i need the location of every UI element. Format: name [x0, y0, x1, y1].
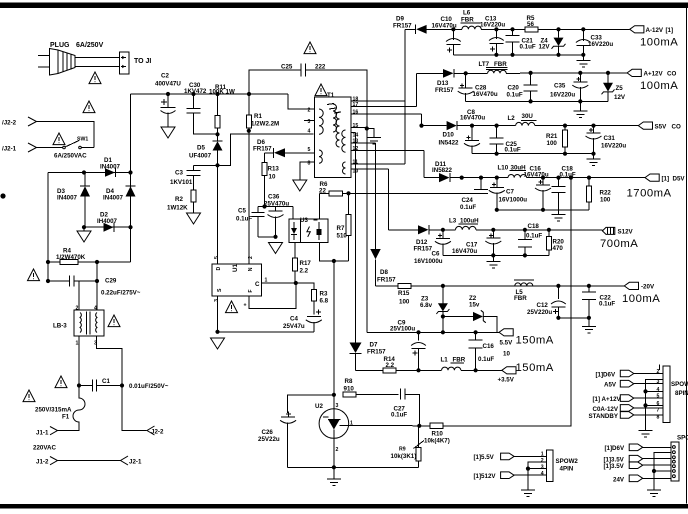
svg-text:R9: R9 — [399, 447, 406, 453]
node junction — [494, 53, 498, 57]
svg-text:2.2: 2.2 — [386, 362, 395, 369]
node arrow D6V — [620, 370, 634, 377]
warning triangle — [55, 376, 67, 388]
zener Z2 — [443, 310, 497, 332]
ground — [639, 431, 653, 438]
wire pin4 tie — [646, 390, 664, 392]
ground — [211, 338, 225, 349]
node junction — [606, 71, 610, 75]
svg-text:[1]3.5V: [1]3.5V — [604, 463, 625, 470]
node output arrow D5V — [645, 174, 659, 181]
node junction — [526, 467, 530, 471]
svg-text:4PIN: 4PIN — [560, 466, 574, 473]
svg-text:C1: C1 — [102, 378, 110, 385]
diode D5 — [213, 141, 223, 166]
wire -20V lower bus — [558, 317, 589, 319]
node junction — [591, 124, 595, 128]
wire U1 pin S ground leg — [217, 296, 219, 332]
warning triangle — [23, 390, 35, 402]
node junction — [46, 260, 50, 264]
wire D12 riser — [388, 169, 390, 230]
wire U2 ref to R10 node — [349, 424, 420, 427]
resistor R6 — [320, 191, 349, 196]
node junction — [273, 235, 277, 239]
capacitor C13 electrolytic — [489, 29, 504, 55]
wire pin6 tie — [646, 404, 664, 406]
wire SPOW1 pin5 — [634, 397, 663, 399]
svg-text:SPOW2: SPOW2 — [556, 458, 579, 465]
node junction — [523, 253, 527, 257]
wire SPOW3 pin3 — [643, 458, 671, 460]
pin mark — [314, 219, 318, 221]
wire A+12V lower bus — [466, 100, 608, 102]
wire pin5 tie — [654, 470, 671, 472]
capacitor C26 electrolytic — [280, 411, 296, 467]
svg-text:[1] A+12V: [1] A+12V — [593, 396, 622, 403]
wire T1 pin18 — [351, 100, 405, 102]
ground — [293, 180, 307, 191]
capacitor C17 electrolytic — [485, 230, 501, 256]
svg-text:1/2W2.2M: 1/2W2.2M — [251, 121, 279, 128]
svg-text:D: D — [216, 267, 222, 271]
svg-text:0.1uF: 0.1uF — [520, 44, 536, 51]
wire 5.5V bus — [367, 331, 499, 333]
node junction — [441, 284, 445, 288]
wire to U1 pin5 — [217, 165, 219, 264]
ground — [327, 467, 341, 485]
wire SPOW2 pin4 — [514, 474, 546, 476]
left margin bullet — [0, 193, 5, 198]
node junction — [346, 191, 350, 195]
svg-text:IN4007: IN4007 — [100, 164, 121, 171]
svg-text:16V470u: 16V470u — [460, 115, 485, 122]
svg-text:/J2-2: /J2-2 — [2, 120, 17, 127]
wire T1 pin15 — [351, 127, 367, 129]
node junction — [416, 368, 420, 372]
ground — [647, 490, 661, 497]
node junction — [82, 170, 86, 174]
svg-text:4: 4 — [657, 387, 660, 393]
capacitor C18b — [518, 230, 532, 256]
svg-text:12V: 12V — [614, 94, 626, 101]
svg-text:100mA: 100mA — [640, 36, 678, 48]
diode D11 — [424, 173, 462, 182]
node junction — [441, 330, 445, 334]
node arrow STANDBY — [620, 412, 634, 419]
svg-text:R2: R2 — [175, 196, 183, 203]
resistor R1 — [246, 94, 251, 264]
svg-text:[1]D6V: [1]D6V — [596, 371, 616, 378]
svg-text:IN5822: IN5822 — [432, 167, 453, 174]
svg-text:D8: D8 — [380, 269, 388, 276]
svg-text:470: 470 — [553, 245, 564, 252]
svg-text:6: 6 — [657, 401, 660, 407]
node junction — [128, 170, 132, 174]
svg-text:U3: U3 — [300, 217, 308, 224]
svg-text:4: 4 — [308, 129, 311, 135]
svg-text:6.8v: 6.8v — [420, 302, 433, 309]
svg-text:U2: U2 — [315, 403, 323, 410]
svg-text:16V470u: 16V470u — [524, 171, 549, 178]
connector SPOW3 — [671, 442, 679, 481]
svg-text:16V220u: 16V220u — [601, 143, 626, 150]
node junction — [541, 176, 545, 180]
capacitor C4 electrolytic — [306, 310, 322, 332]
zener Z5 — [602, 73, 615, 102]
svg-text:LB-3: LB-3 — [53, 323, 67, 330]
capacitor C24 — [474, 178, 488, 194]
svg-text:24V: 24V — [613, 476, 625, 483]
node output arrow A-12V — [630, 26, 644, 33]
node output arrow -20V — [624, 282, 638, 289]
svg-text:FBR: FBR — [494, 61, 507, 68]
diode D6 — [265, 148, 315, 158]
svg-text:SPO: SPO — [677, 435, 688, 442]
shunt regulator U2 — [319, 395, 349, 468]
svg-text:C35: C35 — [554, 83, 566, 90]
wire U2 C26 bottom bus — [288, 466, 419, 468]
capacitor C7 electrolytic — [489, 178, 505, 210]
svg-text:C25: C25 — [281, 64, 293, 71]
capacitor C20 — [524, 73, 538, 102]
node junction — [417, 424, 421, 428]
wire D5 node to C3 — [194, 164, 218, 166]
svg-text:1700mA: 1700mA — [627, 187, 672, 199]
svg-text:A-12V: A-12V — [646, 27, 664, 34]
inductor L1 — [442, 363, 502, 371]
svg-text:R8: R8 — [345, 378, 353, 385]
switch SW1 — [63, 141, 94, 149]
wire SPOW1 ground leg — [646, 380, 664, 431]
svg-text:700mA: 700mA — [600, 238, 638, 250]
capacitor C25 — [249, 64, 367, 129]
node junction — [556, 284, 560, 288]
svg-text:10: 10 — [269, 174, 276, 181]
node junction — [491, 228, 495, 232]
capacitor C21 — [506, 29, 520, 55]
svg-text:16V470u: 16V470u — [452, 248, 477, 255]
svg-text:FR157: FR157 — [377, 277, 396, 284]
svg-text:0.1uF: 0.1uF — [526, 232, 542, 239]
svg-text:222: 222 — [315, 64, 326, 71]
svg-text:F1: F1 — [62, 414, 70, 421]
node junction — [556, 176, 560, 180]
svg-text:+: + — [244, 303, 247, 309]
svg-text:J2-2: J2-2 — [151, 429, 164, 436]
svg-text:C4: C4 — [290, 315, 298, 322]
svg-text:0.1uF: 0.1uF — [460, 204, 476, 211]
resistor R15 — [376, 283, 625, 288]
svg-text:56: 56 — [527, 21, 534, 28]
ground — [576, 55, 590, 67]
node junction — [563, 124, 567, 128]
ground — [77, 227, 91, 242]
node junction — [652, 469, 656, 473]
node junction — [332, 259, 336, 263]
warning triangle — [226, 301, 238, 313]
svg-text:D10: D10 — [443, 132, 455, 139]
svg-text:D5V: D5V — [673, 175, 686, 182]
svg-text:FBR: FBR — [461, 16, 474, 23]
svg-text:5: 5 — [214, 256, 220, 259]
node junction — [547, 228, 551, 232]
svg-text:FR157: FR157 — [253, 145, 272, 152]
node junction — [460, 176, 464, 180]
node junction — [529, 71, 533, 75]
resistor R4 — [48, 259, 131, 264]
wire LB-3 pin1 down — [78, 336, 80, 386]
node J2-2 arrow — [28, 117, 37, 126]
svg-text:S5V: S5V — [655, 123, 668, 130]
wire J2-2 to switch — [37, 122, 95, 148]
svg-text:L3: L3 — [449, 218, 457, 225]
warning triangle — [315, 84, 327, 96]
resistor R10 — [419, 423, 571, 428]
connector TO J1 — [120, 52, 130, 74]
wire S5V rail — [472, 125, 516, 127]
svg-text:6.8: 6.8 — [320, 298, 329, 305]
wire HV positive leg — [130, 94, 132, 262]
svg-text:IH4007: IH4007 — [97, 218, 118, 225]
svg-text:F: F — [248, 290, 254, 293]
node junction — [643, 403, 647, 407]
svg-text:R7: R7 — [337, 225, 345, 232]
node junction — [556, 316, 560, 320]
svg-text:15v: 15v — [469, 301, 480, 308]
svg-text:150mA: 150mA — [516, 335, 554, 347]
node J2-1 arrow — [121, 456, 129, 465]
svg-text:R17: R17 — [300, 260, 312, 267]
svg-text:C20: C20 — [508, 84, 520, 91]
resistor R9 — [414, 426, 425, 468]
node junction — [529, 99, 533, 103]
svg-text:R21: R21 — [546, 133, 558, 140]
wire SPOW3 pin6 — [643, 477, 671, 479]
svg-text:SW1: SW1 — [77, 137, 88, 143]
node junction — [581, 27, 585, 31]
node junction — [587, 316, 591, 320]
node junction — [215, 92, 219, 96]
svg-text:25V100u: 25V100u — [390, 326, 415, 333]
wire SPOW1 pin8 — [634, 414, 663, 416]
node junction — [191, 92, 195, 96]
wire LB-3 pin3 down — [97, 336, 123, 386]
node junction — [215, 330, 219, 334]
wire D8 riser — [375, 143, 377, 250]
svg-text:10k(3K1): 10k(3K1) — [391, 453, 417, 460]
inductor L5 — [514, 280, 534, 286]
svg-text:0.1uF: 0.1uF — [391, 412, 407, 419]
diode D9 — [405, 25, 453, 34]
svg-text:A5V: A5V — [604, 382, 617, 389]
inductor LT7 — [466, 68, 627, 74]
node output arrow S5V — [638, 122, 652, 129]
node junction — [120, 383, 124, 387]
node junction — [495, 208, 499, 212]
ground — [573, 101, 587, 117]
inductor L10 — [508, 171, 645, 178]
node junction — [479, 176, 483, 180]
svg-text:4: 4 — [541, 471, 544, 477]
capacitor C22 — [582, 286, 596, 318]
node junction — [441, 228, 445, 232]
node arrow A+12V — [620, 395, 634, 402]
svg-text:10: 10 — [503, 350, 510, 357]
svg-text:FR157: FR157 — [435, 87, 454, 94]
svg-text:17: 17 — [353, 102, 359, 108]
capacitor C35 electrolytic — [572, 73, 588, 102]
border right line — [685, 8, 687, 504]
node junction — [262, 204, 266, 208]
svg-text:510: 510 — [337, 233, 348, 240]
resistor R14 — [356, 368, 442, 373]
svg-text:J1-1: J1-1 — [36, 430, 49, 437]
svg-text:12V: 12V — [539, 44, 551, 51]
regulator U1 — [212, 264, 262, 296]
node junction — [82, 225, 86, 229]
svg-text:25V470u: 25V470u — [264, 200, 289, 207]
wire D13 riser — [416, 73, 418, 106]
svg-text:S: S — [217, 288, 223, 292]
capacitor C30 — [187, 94, 218, 134]
node junction — [365, 126, 369, 130]
wire feedback line — [349, 192, 475, 194]
node junction — [523, 228, 527, 232]
wire C26 top — [288, 395, 334, 413]
ground — [367, 129, 381, 145]
svg-text:C6: C6 — [432, 250, 440, 257]
diode D4 — [126, 173, 136, 228]
svg-text:3: 3 — [657, 379, 660, 385]
node junction — [495, 124, 499, 128]
svg-text:8: 8 — [657, 414, 660, 420]
svg-text:400V47U: 400V47U — [155, 81, 181, 88]
svg-text:16V1000u: 16V1000u — [499, 196, 528, 203]
svg-text:8PIN: 8PIN — [675, 390, 688, 397]
svg-text:100K 1W: 100K 1W — [209, 89, 235, 96]
svg-text:10k(4K7): 10k(4K7) — [424, 437, 450, 444]
svg-text:2: 2 — [336, 447, 339, 453]
node junction — [77, 383, 81, 387]
svg-text:C31: C31 — [604, 135, 616, 142]
wire S12V lower bus — [443, 254, 549, 256]
wire U1 pin F — [249, 283, 296, 308]
svg-text:C2: C2 — [161, 73, 169, 80]
wire C36 node — [258, 206, 293, 208]
svg-text:0.1uF: 0.1uF — [478, 356, 494, 363]
wire T1 pin11 — [351, 163, 405, 165]
svg-text:IN5422: IN5422 — [439, 140, 460, 147]
svg-text:100mA: 100mA — [640, 80, 678, 92]
resistor R2 — [191, 190, 196, 213]
node junction — [578, 99, 582, 103]
node output arrow S12V striped — [602, 227, 614, 234]
svg-text:1: 1 — [541, 451, 544, 457]
capacitor C31 electrolytic — [586, 126, 602, 154]
ground — [161, 127, 175, 138]
wire T1 pin3 stub — [304, 119, 315, 121]
node junction — [494, 27, 498, 31]
svg-text:+3.5V: +3.5V — [498, 376, 515, 383]
node junction — [470, 124, 474, 128]
svg-text:100mA: 100mA — [622, 293, 660, 305]
resistor R11 — [215, 94, 220, 141]
svg-text:3: 3 — [541, 464, 544, 470]
warning triangle — [304, 42, 316, 54]
svg-text:250V/315mA: 250V/315mA — [35, 407, 72, 414]
svg-text:C5: C5 — [238, 208, 246, 215]
capacitor C8 electrolytic — [464, 126, 480, 154]
wire SPOW1 pin7 — [634, 407, 663, 409]
wire C node to R3 — [296, 283, 314, 290]
node junction — [247, 92, 251, 96]
node junction — [541, 208, 545, 212]
wire U3 LED anode — [292, 207, 294, 220]
capacitor C9 electrolytic — [411, 332, 426, 370]
svg-text:CO: CO — [667, 71, 676, 78]
capacitor C16 electrolytic — [535, 178, 551, 210]
node arrow 512V to SPOW2 — [501, 472, 514, 479]
resistor R22 — [587, 178, 592, 210]
svg-text:0.22uF/275V~: 0.22uF/275V~ — [101, 290, 141, 297]
node junction — [587, 284, 591, 288]
wire C5 C36 bottom bus — [258, 236, 276, 238]
svg-text:SPOW1: SPOW1 — [671, 381, 688, 388]
diode D1 — [105, 168, 115, 177]
svg-text:LT7: LT7 — [479, 61, 490, 68]
node arrow 5.5V to SPOW2 — [501, 453, 514, 460]
svg-text:16V470u: 16V470u — [473, 91, 498, 98]
svg-text:IN4007: IN4007 — [57, 195, 78, 202]
capacitor C33 electrolytic — [576, 29, 591, 55]
node junction — [95, 279, 99, 283]
node junction — [215, 163, 219, 167]
wire SPOW3 ground leg — [654, 453, 671, 490]
node junction — [563, 152, 567, 156]
svg-text:100: 100 — [600, 197, 611, 204]
capacitor C3 — [187, 165, 201, 190]
node J2-1 arrow — [28, 143, 37, 152]
node arrow C0A-12V — [620, 405, 634, 412]
svg-text:2: 2 — [76, 305, 79, 311]
svg-text:UF4007: UF4007 — [189, 153, 212, 160]
wire T1 pin10 — [351, 168, 389, 170]
diode D3 — [80, 173, 90, 228]
AC plug symbol — [38, 49, 75, 76]
svg-text:L1: L1 — [441, 356, 449, 363]
wire HV bus to T1 pin2 — [288, 94, 315, 109]
svg-text:L6: L6 — [463, 9, 471, 16]
wire HV bus — [131, 93, 289, 95]
svg-text:TO JI: TO JI — [134, 58, 151, 65]
ground — [486, 255, 500, 268]
svg-text:16: 16 — [353, 110, 359, 116]
capacitor C6 electrolytic — [435, 230, 451, 256]
node junction — [441, 314, 445, 318]
svg-text:220VAC: 220VAC — [33, 445, 56, 452]
svg-text:1KV101: 1KV101 — [170, 179, 193, 186]
capacitor C10 electrolytic — [446, 29, 461, 55]
ground — [587, 154, 601, 166]
transformer T1 — [315, 97, 352, 178]
svg-text:R13: R13 — [268, 166, 280, 173]
svg-text:C29: C29 — [105, 278, 117, 285]
wire U1 pin C — [262, 282, 296, 284]
wire D10 riser — [421, 114, 423, 126]
wire standby riser — [570, 178, 572, 426]
svg-text:6A/250V: 6A/250V — [76, 42, 104, 49]
node junction — [569, 176, 573, 180]
